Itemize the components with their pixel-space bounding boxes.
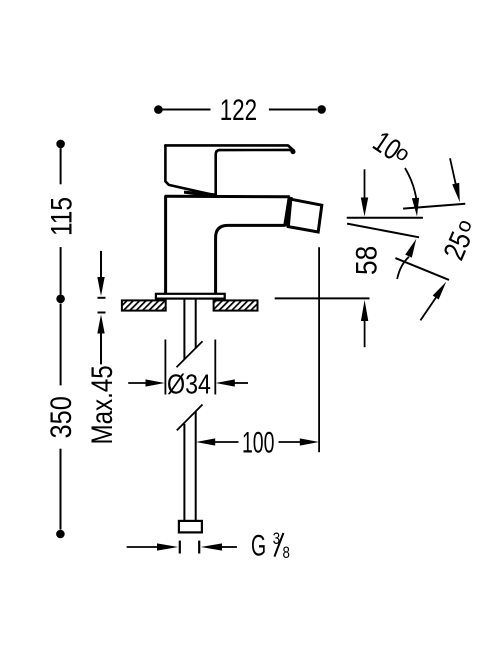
pipe break slash lower bbox=[177, 405, 203, 431]
dimension O34: right arrow line bbox=[233, 382, 248, 384]
faucet handle: inner neck edge with rounded corner bbox=[216, 150, 220, 194]
dimension 115 left: lower line segment bbox=[60, 247, 62, 294]
reference line A (upper outlet plane) bbox=[403, 204, 465, 209]
supply pipe: left line upper segment bbox=[183, 300, 185, 360]
dimension 115 left: upper line segment bbox=[60, 148, 62, 184]
dimension O34: left arrowhead bbox=[146, 379, 165, 386]
dimension O34: right extension line bbox=[214, 340, 216, 395]
faucet handle: outer left edge with bend bbox=[165, 145, 212, 194]
dimension 100: left line segment bbox=[214, 441, 239, 443]
faucet handle lever: top edge and tip bbox=[165, 145, 293, 150]
svg-text:122: 122 bbox=[220, 93, 257, 127]
10 degree arc leader bbox=[405, 168, 417, 200]
dimension Max.45: upper arrow line bbox=[100, 251, 102, 278]
dimension 58: lower arrow line bbox=[364, 320, 366, 347]
dimension O34: left arrow line bbox=[128, 382, 147, 384]
angle 10 text bbox=[367, 124, 416, 172]
angle 25 text bbox=[437, 215, 483, 265]
dimension 58: upper arrowhead pointing down bbox=[361, 198, 368, 217]
mounting deck left hatched section bbox=[122, 300, 166, 310]
dimension 350 left: shared middle dot bbox=[56, 295, 65, 304]
dimension 115 left: top dot bbox=[56, 140, 65, 149]
dimension 350 left: bottom dot bbox=[56, 530, 65, 539]
dimension 122 top: line right segment bbox=[269, 109, 317, 111]
dimension 100: right line segment bbox=[279, 441, 303, 443]
pipe end fitting G3/8 bbox=[179, 521, 202, 533]
reference line B (horizontal spout plane) bbox=[347, 217, 423, 219]
faucet body: top edge bbox=[165, 195, 290, 199]
bottom thread dimension: left line bbox=[127, 546, 158, 548]
svg-text:Ø34: Ø34 bbox=[167, 369, 211, 399]
reference line D (25 degree plane) bbox=[395, 258, 449, 280]
leader arrow onto line D: tail bbox=[420, 296, 437, 320]
bottom thread dimension: right tick bbox=[198, 541, 200, 554]
thread label: fraction slash bbox=[274, 533, 283, 557]
deck top horizontal extension line bbox=[275, 297, 370, 299]
svg-text:Max.45: Max.45 bbox=[86, 365, 119, 444]
leader arrow onto line A bbox=[450, 158, 456, 185]
supply pipe: right line upper segment bbox=[195, 300, 197, 349]
dimension 350 left: lower line segment bbox=[60, 449, 62, 530]
dimension 58: lower arrowhead pointing up bbox=[361, 300, 368, 321]
dimension Max.45: upper tick bbox=[98, 297, 106, 299]
leader arrowhead onto line A bbox=[452, 183, 460, 202]
mounting deck right hatched section bbox=[214, 300, 258, 310]
faucet spout joint band bbox=[286, 197, 291, 227]
dimension Max.45: lower arrow line bbox=[100, 333, 102, 365]
spout vertical extension line bbox=[318, 247, 320, 452]
base flange plate bbox=[156, 294, 225, 299]
dimension 122 top: line left segment bbox=[162, 109, 211, 111]
faucet handle: base wedge fill bbox=[184, 191, 216, 198]
dimension Max.45: lower arrowhead pointing up bbox=[97, 315, 104, 334]
faucet body: spout arm underside and column right edge bbox=[216, 225, 285, 293]
dimension O34: right arrowhead bbox=[216, 379, 235, 386]
dimension 58: upper arrow line bbox=[364, 169, 366, 199]
svg-text:G: G bbox=[251, 529, 266, 562]
svg-text:100: 100 bbox=[242, 426, 274, 459]
25 degree arc arrowhead bbox=[405, 239, 416, 258]
bottom thread dimension: right arrowhead pointing left bbox=[201, 543, 222, 550]
svg-text:58: 58 bbox=[350, 246, 383, 275]
supply pipe: right line lower segment bbox=[195, 412, 197, 521]
dimension 100: right arrowhead at extension line bbox=[300, 438, 319, 445]
faucet spout head (tilted) bbox=[288, 199, 322, 232]
svg-text:115: 115 bbox=[44, 197, 78, 236]
leader arrowhead onto line D bbox=[433, 282, 447, 300]
svg-text:8: 8 bbox=[283, 544, 290, 563]
dimension 350 left: upper line segment bbox=[60, 304, 62, 386]
bottom thread dimension: left tick bbox=[179, 541, 181, 554]
svg-text:350: 350 bbox=[44, 396, 77, 438]
dimension 122 top: right end dot bbox=[317, 105, 326, 114]
bottom thread dimension: right line bbox=[221, 546, 237, 548]
25 degree arc leader bbox=[397, 257, 409, 279]
dimension 100: left arrowhead at pipe bbox=[196, 438, 215, 445]
dimension O34: left extension line bbox=[164, 340, 166, 395]
dimension Max.45: lower tick bbox=[98, 312, 106, 314]
supply pipe: left line lower segment bbox=[183, 424, 185, 521]
reference line C (10 degree plane) bbox=[347, 224, 419, 238]
bottom thread dimension: left arrowhead pointing right bbox=[157, 543, 178, 550]
faucet handle lever: tip blob bbox=[291, 149, 296, 154]
dimension 122 top: left end dot bbox=[154, 105, 163, 114]
faucet handle lever: underside with hooked tip bbox=[220, 150, 294, 153]
10 degree arc arrowhead bbox=[412, 198, 419, 217]
faucet body: left edge bbox=[164, 196, 167, 294]
pipe break slash upper bbox=[177, 341, 203, 367]
dimension Max.45: upper arrowhead pointing down bbox=[97, 277, 104, 296]
